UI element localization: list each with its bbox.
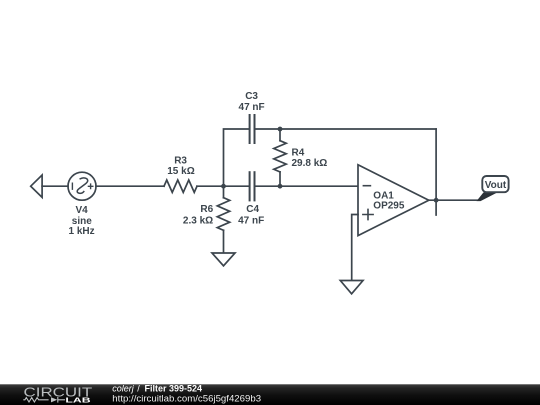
svg-text:Vout: Vout [485,180,507,191]
label C4 47 nF [238,204,264,226]
label V4 sine 1 kHz [69,205,95,237]
footer title [112,384,261,404]
svg-text:LAB: LAB [65,395,91,404]
svg-text:R6: R6 [200,204,213,215]
label R4 29.8 kOhm [292,148,328,169]
svg-text:2.3 kΩ: 2.3 kΩ [183,216,213,227]
svg-text:R4: R4 [292,148,305,159]
label OA1 OP295 [373,190,405,211]
svg-text:C4: C4 [246,204,259,215]
wire [224,129,250,186]
input port arrow [31,175,42,197]
label R3 15 kOhm [167,155,194,177]
footer bar [0,384,540,405]
voltage source V4 [68,172,96,200]
op-amp OA1 [358,165,429,236]
svg-text:OP295: OP295 [373,200,405,211]
svg-text:15 kΩ: 15 kΩ [167,166,194,177]
svg-text:1 kHz: 1 kHz [69,226,95,237]
wire [429,199,479,201]
svg-text:http://circuitlab.com/c56j5gf4: http://circuitlab.com/c56j5gf4269b3 [112,394,261,404]
wire [42,185,68,187]
node junction [434,198,439,203]
node junction [278,184,283,189]
svg-text:29.8 kΩ: 29.8 kΩ [292,158,328,169]
wire [255,128,436,130]
svg-text:R3: R3 [174,155,187,166]
svg-text:Filter 399-524: Filter 399-524 [145,384,203,394]
svg-text:47 nF: 47 nF [238,216,264,227]
svg-text:47 nF: 47 nF [239,102,265,113]
wire [435,129,437,200]
node Vout flag [477,176,509,201]
svg-text:V4: V4 [75,205,88,216]
resistor R4 [274,129,286,186]
ground [340,281,363,294]
wire [96,185,164,187]
svg-text:colerj: colerj [112,384,135,394]
ground [212,253,235,266]
node junction [221,184,226,189]
wire [255,185,358,187]
svg-text:C3: C3 [245,91,258,102]
label C3 47 nF [239,91,265,113]
capacitor C3 [250,115,255,143]
resistor R6 [217,186,229,253]
label R6 2.3 kOhm [183,204,214,226]
CircuitLab logo [23,384,92,404]
capacitor C4 [250,172,255,200]
resistor R3 [164,180,197,192]
wire [197,185,249,187]
wire [435,200,437,215]
node junction [278,127,283,132]
wire [352,215,358,281]
